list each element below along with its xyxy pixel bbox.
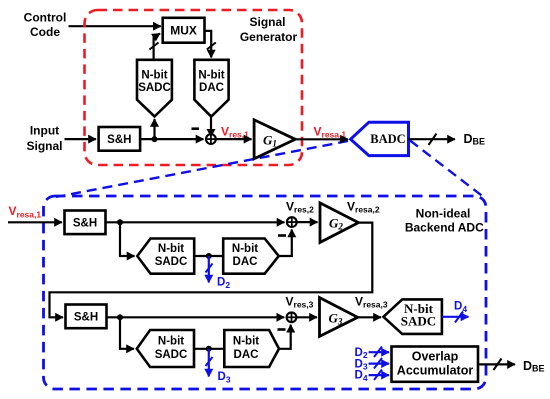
wire DAC to summer (stage 2) xyxy=(279,230,292,257)
wire SADC to DAC (stage 2) xyxy=(194,255,223,257)
svg-text:S&H: S&H xyxy=(107,134,131,146)
bus D3 down arrow xyxy=(206,349,213,377)
node junction (stage 3) xyxy=(117,314,123,320)
svg-text:DAC: DAC xyxy=(233,256,258,268)
wire DAC to summer (stage 3) xyxy=(279,325,291,349)
svg-text:DAC: DAC xyxy=(234,349,259,361)
wire S&H to summer (stage 3) xyxy=(107,316,285,318)
block BADC xyxy=(351,122,409,155)
wire junction up to SADC xyxy=(153,119,155,139)
svg-text:S&H: S&H xyxy=(74,312,98,324)
block S&H (stage 3) xyxy=(66,305,107,329)
node junction D2 tap xyxy=(206,253,212,259)
minus sign (stage 2 summer) xyxy=(278,234,286,237)
summer (stage 3) xyxy=(287,312,297,322)
wire SADC to DAC (stage 3) xyxy=(194,348,224,350)
svg-text:Generator: Generator xyxy=(240,30,298,44)
svg-text:Input: Input xyxy=(30,123,59,137)
svg-text:Vres,2: Vres,2 xyxy=(286,199,314,214)
wire input to S&H (stage 2) xyxy=(8,221,62,223)
svg-text:Vresa,3: Vresa,3 xyxy=(355,294,388,309)
svg-text:BADC: BADC xyxy=(370,132,405,146)
dashed box Signal Generator xyxy=(85,10,303,165)
expansion dashed line right xyxy=(410,141,483,197)
svg-text:SADC: SADC xyxy=(155,349,188,361)
svg-text:N-bit: N-bit xyxy=(141,69,167,81)
svg-text:DBE: DBE xyxy=(464,132,486,147)
svg-text:S&H: S&H xyxy=(73,218,97,230)
block Overlap Accumulator xyxy=(392,347,479,382)
wire MUX output to DAC input (bus) xyxy=(205,31,216,58)
svg-text:SADC: SADC xyxy=(401,314,436,329)
svg-text:SADC: SADC xyxy=(155,256,188,268)
node junction after S&H xyxy=(152,136,158,142)
svg-text:Non-ideal: Non-ideal xyxy=(416,206,471,220)
mux U1 xyxy=(163,18,205,43)
amplifier G2 xyxy=(320,203,359,243)
block S&H (stage 2) xyxy=(65,211,106,235)
block N-bit SADC (stage 2) xyxy=(137,239,194,274)
block N-bit DAC (stage 3) xyxy=(224,330,279,367)
svg-text:N-bit: N-bit xyxy=(158,243,184,255)
minus sign (stage 3 summer) xyxy=(278,328,286,331)
summer (stage 1) xyxy=(206,134,216,144)
amplifier G3 xyxy=(320,298,358,337)
wire SADC output to MUX input (bus) xyxy=(150,34,161,60)
svg-text:N-bit: N-bit xyxy=(198,69,224,81)
svg-text:N-bit: N-bit xyxy=(158,336,184,348)
svg-text:Vresa,1: Vresa,1 xyxy=(314,124,347,139)
svg-text:Overlap: Overlap xyxy=(412,349,459,363)
wire G2 output feedback to stage 3 S&H xyxy=(50,223,373,318)
node junction D3 tap xyxy=(206,346,212,352)
svg-text:N-bit: N-bit xyxy=(232,243,258,255)
svg-text:D4: D4 xyxy=(355,370,368,383)
wire DAC down to summer xyxy=(210,117,212,137)
svg-text:Code: Code xyxy=(30,25,60,39)
bus D4 out xyxy=(442,312,469,323)
svg-text:Vresa,2: Vresa,2 xyxy=(347,199,380,214)
expansion dashed line left xyxy=(56,141,348,197)
svg-text:Vresa,1: Vresa,1 xyxy=(9,204,42,219)
amplifier G1 xyxy=(254,120,295,159)
block N-bit SADC (stage 4) xyxy=(383,299,442,334)
bus D2 into accumulator xyxy=(369,347,389,358)
minus sign (stage 1 summer) xyxy=(192,127,200,130)
node junction (stage 2) xyxy=(117,219,123,225)
svg-text:Signal: Signal xyxy=(249,15,285,29)
svg-text:Backend ADC: Backend ADC xyxy=(405,221,484,235)
bus D3 into accumulator xyxy=(369,358,389,369)
wire summer to G2 xyxy=(297,221,318,223)
bus D2 down arrow xyxy=(206,256,213,283)
svg-text:Control: Control xyxy=(24,10,67,24)
svg-text:D2: D2 xyxy=(217,277,230,290)
wire junction to SADC (stage 2) xyxy=(120,222,135,256)
wire S&H to summer (stage 2) xyxy=(106,221,285,223)
block N-bit SADC (stage 3) xyxy=(137,330,194,367)
wire G3 to N-bit SADC (stage 4) xyxy=(358,316,381,318)
dashed box Non-ideal Backend ADC xyxy=(44,196,487,389)
svg-text:Accumulator: Accumulator xyxy=(397,364,474,378)
wire S&H to summer xyxy=(140,138,203,140)
wire input signal to S&H xyxy=(65,138,97,140)
wire accumulator to DBE (bus) xyxy=(478,359,515,371)
svg-text:D3: D3 xyxy=(218,371,231,384)
wire control code to MUX xyxy=(69,25,161,27)
block S&H (stage 1) xyxy=(99,127,141,151)
wire summer to G1 xyxy=(216,138,252,140)
svg-text:SADC: SADC xyxy=(138,82,171,94)
wire G1 to BADC xyxy=(295,138,348,140)
svg-text:Vres,3: Vres,3 xyxy=(286,294,314,309)
svg-text:MUX: MUX xyxy=(170,24,197,38)
wire junction to SADC (stage 3) xyxy=(120,317,134,349)
wire BADC to DBE (bus) xyxy=(409,134,456,146)
svg-text:DAC: DAC xyxy=(199,82,224,94)
summer (stage 2) xyxy=(287,217,297,227)
wire summer to G3 xyxy=(296,316,317,318)
block N-bit SADC (signal generator) xyxy=(137,60,172,117)
bus D4 into accumulator xyxy=(369,370,389,381)
svg-text:N-bit: N-bit xyxy=(233,336,259,348)
block N-bit DAC (stage 2) xyxy=(223,239,279,274)
svg-text:DBE: DBE xyxy=(523,359,545,374)
svg-text:Vres,1: Vres,1 xyxy=(221,124,249,139)
svg-text:D4: D4 xyxy=(454,301,467,314)
svg-text:Signal: Signal xyxy=(26,139,62,153)
block N-bit DAC (signal generator) xyxy=(194,60,228,117)
